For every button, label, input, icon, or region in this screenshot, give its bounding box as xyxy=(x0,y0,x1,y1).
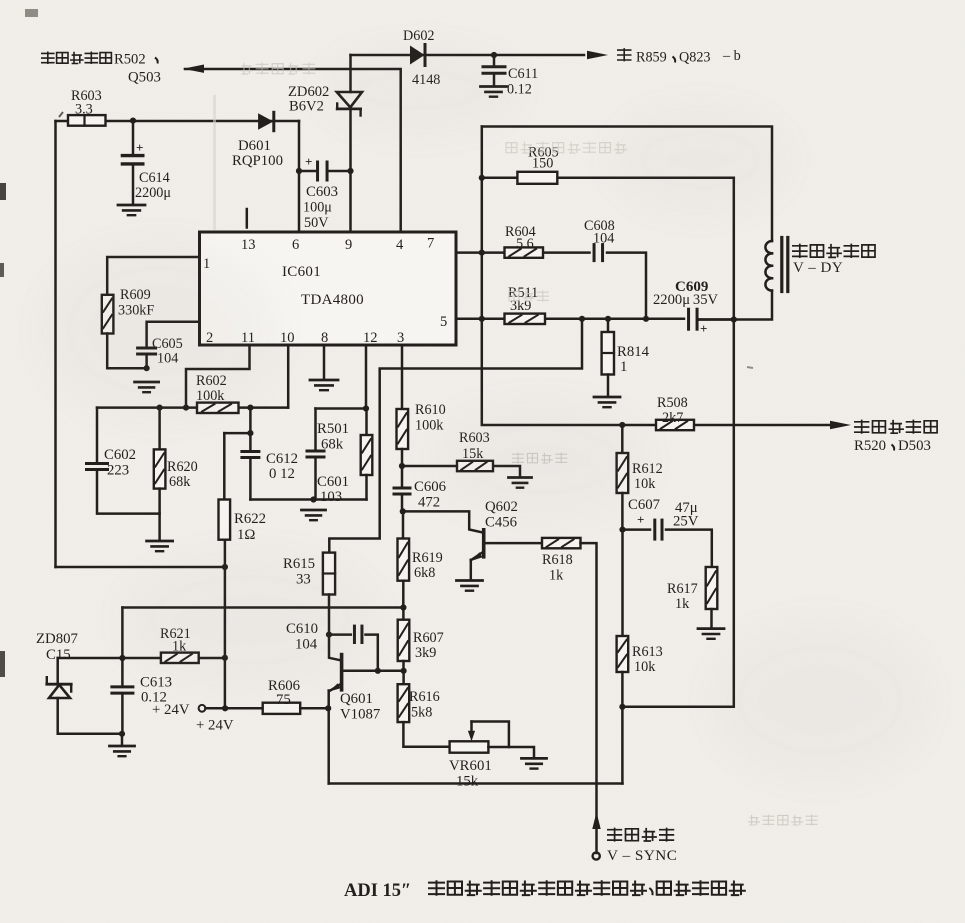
label 接图形控制 xyxy=(854,420,937,434)
resistor R604 5.6 xyxy=(505,224,544,258)
node C614 top xyxy=(130,118,136,124)
svg-text:V – SYNC: V – SYNC xyxy=(607,847,677,864)
inductor V-DY deflection coil xyxy=(765,238,787,292)
pin 1 label xyxy=(203,256,210,272)
svg-text:VR601: VR601 xyxy=(449,758,492,774)
wire Q601 base xyxy=(329,635,341,661)
svg-text:25V: 25V xyxy=(673,514,699,530)
wire +24V to R606 xyxy=(206,705,263,711)
svg-text:B6V2: B6V2 xyxy=(289,99,324,115)
svg-text:8: 8 xyxy=(321,330,328,346)
resistor R615 33 xyxy=(283,553,335,595)
svg-text:68k: 68k xyxy=(321,437,344,453)
wire R609 bottom xyxy=(107,334,146,369)
diode D602 xyxy=(403,28,440,88)
pin 10 label xyxy=(280,330,295,346)
pin 4 label xyxy=(396,237,404,253)
arrow to 接 R859、Q823-b xyxy=(587,51,608,59)
resistor R622 1ohm xyxy=(219,433,267,543)
svg-text:R502: R502 xyxy=(114,52,146,68)
pin 5 label xyxy=(440,314,447,330)
node inner loop bottom xyxy=(619,704,625,710)
pin 13 stub xyxy=(241,209,256,253)
arrow to 接图形控制 R520 D503 xyxy=(830,421,851,429)
svg-text:+: + xyxy=(637,512,644,527)
svg-text:– b: – b xyxy=(722,48,741,64)
label 接 R859、Q823 - b xyxy=(617,48,741,66)
svg-text:D602: D602 xyxy=(403,28,435,44)
svg-text:100k: 100k xyxy=(415,418,444,434)
pin 8 label xyxy=(321,330,328,346)
resistor R609 330kF xyxy=(102,287,155,334)
svg-text:+: + xyxy=(136,140,143,155)
wire R603b row xyxy=(402,466,520,477)
wire pin 8 xyxy=(323,345,326,379)
svg-text:7: 7 xyxy=(427,236,434,252)
IC U601 TDA4800 box xyxy=(200,232,457,345)
wire ZD807 row xyxy=(58,655,228,661)
pin 7 label xyxy=(427,236,434,252)
wire R613 bottom xyxy=(621,672,624,784)
node R607 bottom xyxy=(401,661,407,674)
node R606/emitter xyxy=(325,705,331,711)
svg-text:D503: D503 xyxy=(898,438,931,454)
wire pin 1 xyxy=(107,257,199,295)
wire R615 bottom to C610 node xyxy=(328,595,331,635)
wire coil bottom xyxy=(698,291,773,320)
node R619 bottom xyxy=(400,581,406,611)
svg-text:15k: 15k xyxy=(456,774,479,790)
node C612 top xyxy=(247,405,253,411)
svg-text:2200μ: 2200μ xyxy=(135,185,171,201)
label 接图形控制R502、Q503 xyxy=(41,52,161,86)
wire pin9 vertical xyxy=(349,171,352,232)
wire pin 12 xyxy=(316,345,367,408)
svg-text:0 12: 0 12 xyxy=(269,466,295,482)
capacitor C602 223 xyxy=(87,408,160,514)
svg-text:C607: C607 xyxy=(628,497,660,513)
wire mid rail 607 xyxy=(122,606,403,609)
svg-text:104: 104 xyxy=(593,231,614,247)
pin 11 label xyxy=(241,330,255,346)
capacitor C603 100u 50V xyxy=(296,154,354,231)
svg-text:2200μ 35V: 2200μ 35V xyxy=(653,292,719,308)
capacitor C612 0.12 xyxy=(242,408,298,500)
svg-text:150: 150 xyxy=(532,156,553,172)
svg-text:9: 9 xyxy=(345,237,352,253)
label V-DY xyxy=(793,260,843,276)
node R620 top xyxy=(157,405,163,411)
node pin7 join xyxy=(479,250,485,256)
wire pin 3 xyxy=(401,345,404,409)
resistor R613 10k xyxy=(617,530,663,675)
svg-text:R620: R620 xyxy=(167,459,198,475)
resistor R814 1 xyxy=(602,319,650,396)
capacitor C609 2200u 35V xyxy=(653,279,734,336)
svg-text:R859: R859 xyxy=(636,50,667,66)
label R520、D503 xyxy=(854,438,931,454)
wire Q601 emitter down xyxy=(327,691,330,784)
capacitor C606 472 xyxy=(394,466,446,511)
wire top output line to D602 and R859 xyxy=(351,54,585,57)
resistor R610 100k xyxy=(397,402,446,449)
wire C606 node to Q602 base xyxy=(403,511,482,532)
diode D601 xyxy=(232,112,283,169)
svg-text:C15: C15 xyxy=(46,647,71,663)
resistor R621 1k xyxy=(160,626,199,663)
node C606 bottom xyxy=(400,508,406,514)
caption ADI 15 color display vertical circuit xyxy=(344,880,746,901)
svg-text:R618: R618 xyxy=(542,552,573,568)
wire pin 10 xyxy=(287,345,290,407)
svg-text:Q823: Q823 xyxy=(679,50,711,66)
wire pin5 node to R615 xyxy=(329,319,582,553)
svg-text:C612: C612 xyxy=(266,451,298,467)
svg-text:R610: R610 xyxy=(415,402,446,418)
node rail ground xyxy=(310,496,316,502)
svg-text:Q503: Q503 xyxy=(128,70,161,86)
svg-text:TDA4800: TDA4800 xyxy=(301,292,364,308)
wire R605 row xyxy=(482,177,734,180)
resistor R620 68k xyxy=(154,408,198,540)
node R612 top xyxy=(619,422,625,428)
resistor R612 10k xyxy=(617,425,663,493)
svg-text:6k8: 6k8 xyxy=(414,565,435,581)
wire VR601 right to ground xyxy=(488,747,534,758)
svg-text:R617: R617 xyxy=(667,581,698,597)
transistor Q602 C456 xyxy=(470,499,542,580)
svg-text:223: 223 xyxy=(107,463,129,479)
svg-text:12: 12 xyxy=(363,330,378,346)
svg-text:1Ω: 1Ω xyxy=(237,527,255,543)
svg-text:R613: R613 xyxy=(632,644,663,660)
arrow V-SYNC up xyxy=(592,812,600,829)
svg-text:ADI 15″: ADI 15″ xyxy=(344,881,411,901)
svg-text:68k: 68k xyxy=(169,474,191,490)
svg-text:V1087: V1087 xyxy=(340,707,380,723)
svg-text:100μ: 100μ xyxy=(303,200,332,216)
node C608 branch xyxy=(643,316,649,322)
node R615 branch xyxy=(579,316,585,322)
resistor R619 6k8 xyxy=(398,511,443,581)
node R605 top xyxy=(479,175,485,181)
ground for R617 xyxy=(698,609,724,639)
svg-text:C614: C614 xyxy=(139,170,170,186)
svg-text:6: 6 xyxy=(292,237,299,253)
wire pin 2 xyxy=(147,322,200,346)
node R609/C605/ground xyxy=(144,365,150,371)
svg-text:50V: 50V xyxy=(304,215,329,231)
node R814 top xyxy=(605,316,611,322)
ground for C605 xyxy=(135,382,159,392)
svg-text:R520: R520 xyxy=(854,438,886,454)
svg-text:472: 472 xyxy=(418,495,440,511)
pin 6 label xyxy=(292,237,299,253)
resistor R616 5k8 xyxy=(398,671,440,722)
left rail vertical xyxy=(54,121,57,567)
svg-text:1k: 1k xyxy=(675,596,690,612)
capacitor C611 xyxy=(483,52,538,98)
wire left rail bottom xyxy=(56,564,228,570)
wire mid rail corner xyxy=(121,608,124,659)
wire cap bottom rail xyxy=(250,498,366,501)
ground for R603 15k xyxy=(509,478,532,488)
resistor R606 75 xyxy=(263,678,301,714)
capacitor C614 2200u xyxy=(122,121,171,204)
wire R602 row xyxy=(97,406,288,409)
terminal +24V xyxy=(152,702,234,734)
transistor Q601 V1087 xyxy=(329,655,404,723)
resistor R617 1k xyxy=(667,567,717,612)
pin 3 label xyxy=(397,330,404,346)
label V-SYNC xyxy=(607,847,677,864)
capacitor C613 0.12 xyxy=(112,658,172,737)
svg-text:3k9: 3k9 xyxy=(415,645,436,661)
wire R622 top link xyxy=(224,430,253,436)
wire pin4 to left arrow xyxy=(185,69,401,232)
resistor R605 150 xyxy=(517,145,558,184)
ground for C611 xyxy=(481,87,507,97)
svg-text:R616: R616 xyxy=(409,689,440,705)
node C607 left xyxy=(619,493,625,533)
svg-text:R501: R501 xyxy=(317,421,349,437)
node inner loop right xyxy=(731,316,737,322)
resistor R618 1k xyxy=(542,538,581,584)
wire R616 to VR601 xyxy=(403,722,449,747)
node C610 right xyxy=(375,668,381,674)
svg-text:C601: C601 xyxy=(317,474,349,490)
wire R606 to emitter xyxy=(300,707,328,710)
wire pin 7 row xyxy=(456,253,646,319)
svg-text:103: 103 xyxy=(320,489,342,505)
svg-text:5k8: 5k8 xyxy=(411,705,432,721)
resistor R603 3.3 xyxy=(68,88,106,126)
svg-text:R622: R622 xyxy=(234,511,266,527)
potentiometer VR601 15k xyxy=(449,741,492,789)
ground for pin 8 xyxy=(310,380,338,390)
node pin12 xyxy=(363,405,369,411)
svg-text:2k7: 2k7 xyxy=(662,410,683,426)
ground for C613/ZD807 xyxy=(110,734,135,756)
zener ZD807 C15 xyxy=(36,631,122,734)
arrow to 接图形控制R502 xyxy=(183,65,204,73)
svg-text:C603: C603 xyxy=(306,184,338,200)
svg-text:10k: 10k xyxy=(634,659,656,675)
capacitor C610 104 xyxy=(286,621,378,671)
svg-text:13: 13 xyxy=(241,237,256,253)
label 场同步入 xyxy=(607,828,674,842)
ground for Q602 emitter xyxy=(457,581,483,591)
node pin5 join xyxy=(479,316,485,322)
capacitor C601 103 xyxy=(307,409,349,506)
wire pin 11 jog xyxy=(186,345,250,407)
node pin11/R602 xyxy=(183,405,189,411)
svg-text:3.3: 3.3 xyxy=(75,102,93,118)
svg-text:C613: C613 xyxy=(140,675,172,691)
svg-text:Q601: Q601 xyxy=(340,691,373,707)
wiper arrow VR601 xyxy=(468,722,509,748)
svg-text:R814: R814 xyxy=(617,344,650,360)
svg-text:1: 1 xyxy=(620,359,627,375)
wire bottom rail xyxy=(329,782,623,785)
label 场偏转线圈 xyxy=(792,244,875,258)
resistor R607 3k9 xyxy=(398,608,444,662)
capacitor C605 104 xyxy=(138,336,183,368)
svg-text:75: 75 xyxy=(276,692,291,708)
ground for VR601 xyxy=(522,758,547,768)
svg-text:1k: 1k xyxy=(549,568,564,584)
svg-text:R508: R508 xyxy=(657,395,688,411)
node R610 bottom xyxy=(399,449,405,469)
svg-text:C602: C602 xyxy=(104,447,136,463)
node C610 left xyxy=(326,632,332,638)
wire pin 5 row xyxy=(456,318,684,321)
resistor R602 100k xyxy=(196,373,239,413)
wire inner loop bottom xyxy=(622,178,733,707)
svg-text:R607: R607 xyxy=(413,630,444,646)
svg-text:R619: R619 xyxy=(412,550,443,566)
capacitor C607 47u 25V xyxy=(623,497,712,567)
svg-text:V – DY: V – DY xyxy=(793,260,843,276)
svg-text:3: 3 xyxy=(397,330,404,346)
resistor R603 15k xyxy=(457,430,493,471)
svg-text:0.12: 0.12 xyxy=(141,690,167,706)
resistor R501 68k xyxy=(317,409,372,500)
svg-text:10: 10 xyxy=(280,330,295,346)
capacitor C608 104 xyxy=(584,218,615,261)
ground for C612/C601/R501 xyxy=(302,510,326,520)
ground for R814 xyxy=(594,397,620,407)
pin 12 label xyxy=(363,330,378,346)
svg-text:+: + xyxy=(305,154,312,169)
pin 9 label xyxy=(345,237,352,253)
svg-text:+ 24V: + 24V xyxy=(196,718,234,734)
svg-text:ZD807: ZD807 xyxy=(36,631,78,647)
zener ZD602 B6V2 xyxy=(288,55,362,171)
wire R618 to V-SYNC line xyxy=(581,543,597,853)
svg-text:+: + xyxy=(700,321,707,336)
wire R622 bottom vertical xyxy=(224,540,227,709)
svg-text:4: 4 xyxy=(396,237,404,253)
wire D601 row xyxy=(56,120,300,123)
node ZD807 row left xyxy=(119,655,125,661)
resistor R508 2k7 xyxy=(656,395,694,430)
wire pin6 vertical xyxy=(298,121,301,232)
svg-text:5.6: 5.6 xyxy=(516,236,534,252)
resistor R511 3k9 xyxy=(505,285,546,324)
pin 2 label xyxy=(206,330,213,346)
svg-text:D601: D601 xyxy=(238,138,271,154)
svg-text:IC601: IC601 xyxy=(282,264,321,280)
svg-text:5: 5 xyxy=(440,314,447,330)
wire outer loop top xyxy=(482,127,772,242)
svg-text:RQP100: RQP100 xyxy=(232,153,283,169)
ground for C614 xyxy=(118,205,145,215)
terminal V-SYNC xyxy=(593,852,600,859)
wire R508 row xyxy=(482,127,829,426)
ground for R620/C602 xyxy=(147,541,173,551)
